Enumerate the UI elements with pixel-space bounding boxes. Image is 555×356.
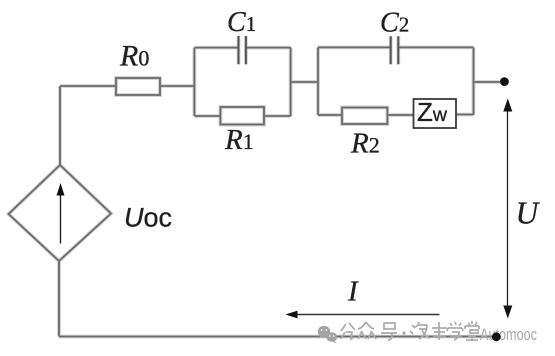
- watermark middle dot: [402, 331, 405, 334]
- svg-text:Uoc: Uoc: [124, 203, 172, 233]
- svg-text:C1: C1: [227, 7, 256, 38]
- loop2 left vertical wire: [317, 47, 319, 115]
- node dot bottom right: [492, 332, 501, 341]
- watermark wechat logo: [318, 326, 337, 343]
- wire from source top to R0: [60, 85, 116, 87]
- node dot top right: [500, 77, 509, 86]
- loop1 bottom wire right of R1: [264, 115, 291, 117]
- svg-text:U: U: [516, 196, 541, 231]
- svg-text:R0: R0: [119, 40, 149, 73]
- wire loop1 to loop2: [291, 81, 318, 83]
- loop1 right vertical wire: [290, 48, 292, 116]
- wire left vertical to source: [59, 86, 61, 165]
- wire source bottom to rail: [58, 261, 60, 337]
- voltage source Uoc diamond: [9, 165, 112, 261]
- resistor R2: [342, 108, 387, 125]
- current arrow inside source: [57, 183, 65, 244]
- loop2 right vertical wire: [473, 47, 475, 115]
- svg-text:R1: R1: [224, 124, 254, 156]
- impedance Zw box: [414, 99, 457, 128]
- svg-text:I: I: [347, 276, 359, 308]
- current arrow I: [285, 311, 439, 319]
- svg-text:Automooc: Automooc: [480, 325, 537, 344]
- loop2 bottom wire R2 to Zw: [387, 114, 413, 116]
- voltage arrow U (double headed): [503, 99, 512, 319]
- loop2 bottom wire Zw to right edge: [456, 114, 474, 116]
- svg-text:R2: R2: [350, 128, 380, 160]
- svg-text:C2: C2: [380, 8, 409, 39]
- resistor R0: [116, 78, 160, 95]
- capacitor C1 plates: [239, 36, 246, 64]
- loop2 top wire left of C2: [318, 46, 391, 48]
- loop1 top wire left of C1: [194, 47, 238, 49]
- loop2 bottom wire left of R2: [318, 114, 342, 116]
- loop1 top wire right of C1: [246, 47, 291, 49]
- loop2 top wire right of C2: [398, 46, 473, 48]
- capacitor C2 plates: [391, 36, 399, 64]
- loop1 left vertical wire: [193, 48, 195, 116]
- wire loop2 to output node: [474, 81, 501, 83]
- resistor R1: [220, 107, 264, 125]
- loop1 bottom wire left of R1: [194, 115, 220, 117]
- wire bottom rail: [59, 336, 496, 338]
- wire R0 to loop1: [160, 85, 194, 87]
- watermark hanzi strokes: [341, 321, 479, 340]
